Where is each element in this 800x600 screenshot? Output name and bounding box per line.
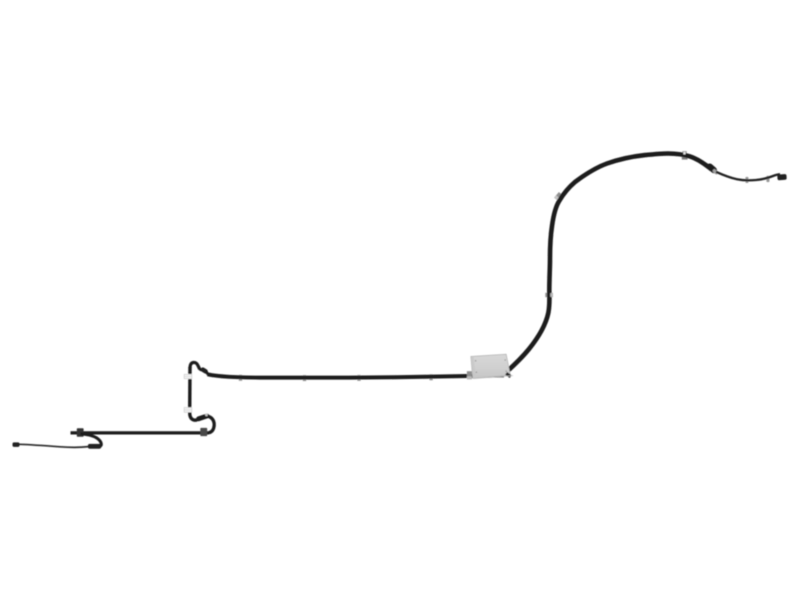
connector: left junction connector: [88, 444, 101, 449]
wire: valley neck at upper junction: [200, 369, 202, 370]
wire: upper hump at left junction: [190, 362, 200, 369]
fitting: lower junction union: [199, 416, 208, 419]
fitting: light tip at thin wire start: [714, 171, 716, 173]
clip: bottom line clip right (x203): [200, 428, 207, 436]
fitting: light washer at lower union: [205, 414, 208, 417]
fitting: upper junction union: [203, 370, 206, 372]
clip: light side of curve clip x551 y295 (over tube): [550, 293, 553, 297]
clip: clip with tab top-right x684 y155 (behind tube): [682, 151, 688, 159]
fitting: tube end fitting right: [710, 167, 714, 171]
wire: left vertical tube: [188, 367, 192, 414]
clip: main line clip x431 (behind tube): [429, 374, 432, 380]
clip: main line clip x468 at plate edge: [467, 371, 472, 379]
clip: curve clip tab x549 y295 (behind tube): [545, 293, 553, 297]
clip: curve clip tab x557 y196 (behind tube): [554, 192, 562, 200]
clip: thin wire clip 2 x768 (behind wire): [766, 176, 769, 182]
clip: white clip upper on vertical: [184, 374, 192, 378]
wire: main horizontal tube: [208, 374, 505, 377]
plate: heat shield plate: [471, 354, 513, 378]
clip: bottom line clip left (x80): [77, 428, 84, 437]
clip: main line clip x240 (behind tube): [239, 375, 242, 381]
wire: bottom junction curve from vertical: [190, 413, 197, 421]
clip: main line clip x359 (behind tube): [357, 375, 360, 381]
clip: white clip lower on vertical: [184, 408, 192, 413]
wire: drop curve to left connector: [81, 434, 102, 447]
wire: thin right wire: [716, 172, 780, 181]
clip: main line clip x304 (behind tube): [303, 375, 306, 381]
wire: bottom horizontal tube: [71, 431, 210, 434]
wire: S-bend to bottom line: [208, 416, 215, 432]
wire: right large curve tube: [506, 154, 712, 373]
clip: white center of top-right clip (over tube): [683, 152, 685, 154]
connector: left end connector: [13, 442, 20, 447]
fitting: upper union to line neck: [206, 372, 208, 375]
wire: thin left wire: [20, 444, 89, 447]
clip: thin wire clip 1 x747 (behind wire): [745, 177, 748, 183]
connector: right end connector: [777, 174, 787, 180]
